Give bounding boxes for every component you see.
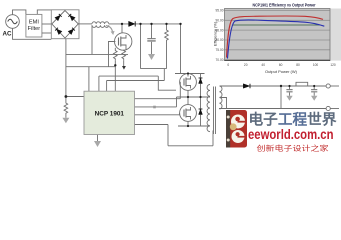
svg-text:AC: AC	[3, 31, 12, 38]
svg-text:40: 40	[261, 63, 265, 67]
svg-text:EMI: EMI	[29, 20, 39, 26]
svg-text:60: 60	[279, 63, 283, 67]
svg-text:100: 100	[313, 63, 319, 67]
svg-text:Output Power (W): Output Power (W)	[265, 69, 298, 74]
svg-text:0: 0	[227, 63, 229, 67]
svg-text:NCP 1901: NCP 1901	[95, 111, 125, 118]
svg-text:电子工程世界: 电子工程世界	[249, 111, 338, 129]
svg-text:20: 20	[244, 63, 248, 67]
svg-text:创新电子设计之家: 创新电子设计之家	[257, 144, 329, 153]
svg-text:80: 80	[296, 63, 300, 67]
svg-text:120: 120	[330, 63, 336, 67]
svg-text:Filter: Filter	[28, 26, 41, 32]
svg-text:Efficiency (%): Efficiency (%)	[213, 21, 218, 46]
svg-text:NCP1901 Efficiency vs Output P: NCP1901 Efficiency vs Output Power	[253, 3, 316, 8]
svg-text:95.00: 95.00	[216, 9, 224, 13]
svg-text:eeworld.com.cn: eeworld.com.cn	[248, 127, 334, 142]
svg-text:70.00: 70.00	[216, 58, 224, 62]
svg-text:75.00: 75.00	[216, 48, 224, 52]
